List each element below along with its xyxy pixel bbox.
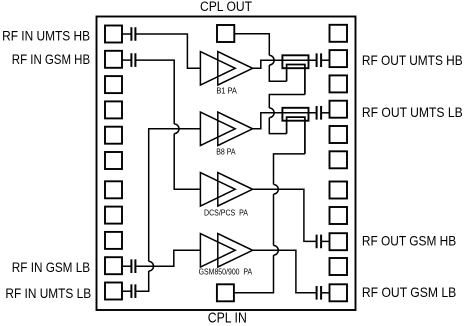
capacitor C3 (RF IN GSM LB) bbox=[131, 259, 135, 273]
wire pin11 to capacitor C4 bbox=[122, 290, 131, 292]
left pin 10 (RF IN GSM LB) bbox=[105, 257, 122, 274]
wire CPL OUT pin to coupler chain bbox=[234, 34, 269, 56]
left pin 4 bbox=[105, 101, 122, 118]
right pin 1 bbox=[330, 25, 348, 42]
svg-text:RF IN UMTS HB: RF IN UMTS HB bbox=[2, 28, 90, 43]
capacitor C4 (RF IN UMTS LB) bbox=[131, 284, 135, 298]
capacitor C6 (RF OUT UMTS LB) bbox=[317, 106, 322, 120]
svg-text:RF OUT UMTS LB: RF OUT UMTS LB bbox=[362, 105, 463, 120]
svg-text:DCS/PCS PA: DCS/PCS PA bbox=[204, 208, 248, 218]
wire PA3 output to RF OUT GSM HB capacitor bbox=[253, 189, 317, 241]
wire PA2 output to coupler K2 through-line bbox=[253, 113, 317, 129]
coupler K2 through-line inside body bbox=[282, 112, 308, 114]
wire K1 coupled out to chain down bbox=[269, 95, 305, 109]
wire C6 to right pin 4 bbox=[321, 112, 329, 114]
wire pin2 to capacitor C2 bbox=[122, 59, 131, 61]
hopover chain over PA4 output bbox=[274, 246, 279, 256]
left pin 3 bbox=[105, 76, 122, 93]
right pin 10 bbox=[330, 258, 348, 275]
wire PA1 output to coupler K1 through-line bbox=[253, 60, 317, 68]
svg-text:RF IN UMTS LB: RF IN UMTS LB bbox=[5, 286, 91, 301]
right pin 3 bbox=[330, 75, 348, 92]
wire C8 to right pin 11 bbox=[321, 292, 329, 294]
wire C1 to PA1 input bbox=[135, 34, 200, 68]
svg-text:CPL IN: CPL IN bbox=[208, 311, 247, 326]
right pin 8 bbox=[330, 207, 348, 224]
wire C2 to PA3 input with hopover of PA2 input wire bbox=[135, 60, 200, 189]
capacitor C7 (RF OUT GSM HB) bbox=[317, 235, 322, 249]
svg-text:RF OUT GSM LB: RF OUT GSM LB bbox=[362, 285, 456, 300]
hopover pin2-wire over PA2 input bbox=[174, 124, 179, 134]
module outline bbox=[97, 17, 356, 311]
svg-text:RF IN GSM LB: RF IN GSM LB bbox=[12, 260, 90, 275]
right pin 11 (RF OUT GSM LB) bbox=[330, 284, 348, 301]
wire chain down to K1 coupled port bbox=[269, 65, 286, 81]
svg-text:RF OUT UMTS HB: RF OUT UMTS HB bbox=[362, 53, 463, 68]
coupler K1 body bbox=[282, 55, 308, 68]
wire chain to CPL IN bbox=[234, 255, 274, 293]
right pin 5 bbox=[330, 126, 348, 143]
wire C7 to right pin 9 bbox=[321, 240, 329, 242]
wire C3 to PA4 input bbox=[135, 250, 200, 266]
capacitor C1 (RF IN UMTS HB) bbox=[131, 27, 135, 41]
hopover chain over PA3 output bbox=[274, 185, 279, 195]
capacitor C8 (RF OUT GSM LB) bbox=[317, 286, 322, 300]
left pin 8 bbox=[105, 207, 122, 224]
right pin 7 bbox=[330, 182, 348, 199]
left pin 9 bbox=[105, 232, 122, 249]
coupler K1 through-line inside body bbox=[282, 59, 308, 61]
svg-text:RF OUT GSM HB: RF OUT GSM HB bbox=[362, 233, 456, 248]
wire C4 riser to PA2 input with hopover of pin10 wire bbox=[135, 129, 200, 291]
hopover chain over K1 through-line bbox=[269, 55, 274, 65]
left pin 7 bbox=[105, 181, 122, 198]
capacitor C2 (RF IN GSM HB) bbox=[131, 53, 135, 67]
wire pin1 to capacitor C1 bbox=[122, 33, 131, 35]
hopover chain over K2 through-line bbox=[269, 108, 274, 118]
wire chain between hops bbox=[273, 194, 275, 245]
wire pin10 to capacitor C3 bbox=[122, 265, 131, 267]
coupler K2 coupled line (staple) bbox=[287, 117, 305, 154]
op-amp PA4 GSM850/900 PA bbox=[200, 234, 252, 267]
left pin 6 bbox=[105, 152, 122, 169]
coupler K1 coupled line (staple) bbox=[287, 65, 305, 95]
pin CPL IN (bottom) bbox=[217, 284, 234, 301]
op-amp PA3 DCS/PCS PA bbox=[200, 173, 252, 206]
left pin 1 (RF IN UMTS HB) bbox=[105, 26, 122, 43]
op-amp PA1 B1 PA (two-stage triangles) bbox=[200, 52, 252, 85]
right pin 4 (RF OUT UMTS LB) bbox=[330, 101, 348, 118]
wire K2 coupled out to lower chain bbox=[274, 154, 305, 185]
coupler K2 body bbox=[282, 108, 308, 121]
right pin 6 bbox=[330, 151, 348, 168]
capacitor C5 (RF OUT UMTS HB) bbox=[317, 53, 322, 67]
right pin 2 (RF OUT UMTS HB) bbox=[330, 50, 348, 67]
pin CPL OUT (top) bbox=[217, 25, 234, 42]
svg-text:GSM850/900 PA: GSM850/900 PA bbox=[199, 267, 253, 277]
wire PA4 output to RF OUT GSM LB capacitor bbox=[253, 250, 317, 292]
svg-text:CPL OUT: CPL OUT bbox=[200, 0, 252, 14]
left pin 11 (RF IN UMTS LB) bbox=[105, 283, 122, 300]
svg-text:B1 PA: B1 PA bbox=[216, 86, 237, 96]
wire C5 to right pin 2 bbox=[321, 59, 329, 61]
hopover riser over pin10 wire bbox=[149, 261, 154, 271]
left pin 5 bbox=[105, 127, 122, 144]
svg-text:B8 PA: B8 PA bbox=[216, 146, 236, 156]
wire chain down to K2 coupled port bbox=[269, 118, 286, 134]
svg-text:RF IN GSM HB: RF IN GSM HB bbox=[12, 52, 90, 67]
right pin 9 (RF OUT GSM HB) bbox=[330, 233, 348, 250]
left pin 2 (RF IN GSM HB) bbox=[105, 51, 122, 68]
op-amp PA2 B8 PA bbox=[200, 112, 252, 145]
